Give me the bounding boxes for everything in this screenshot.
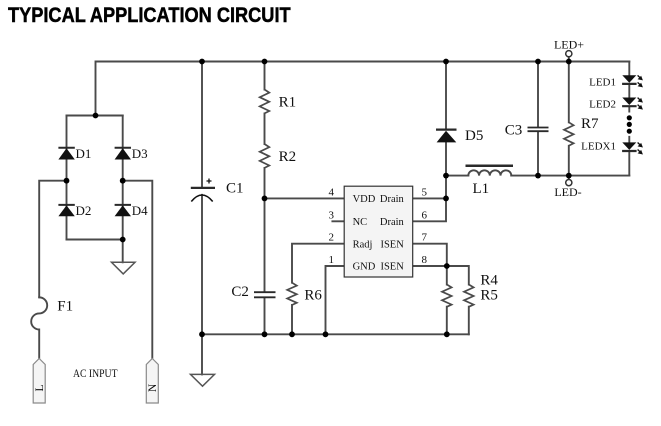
svg-text:C2: C2 [231, 284, 249, 300]
svg-text:R4: R4 [480, 273, 498, 289]
svg-text:VDD: VDD [353, 194, 376, 205]
svg-text:N: N [147, 383, 159, 392]
svg-text:D1: D1 [76, 146, 92, 161]
svg-text:NC: NC [353, 217, 368, 228]
svg-text:5: 5 [422, 187, 428, 199]
svg-text:R2: R2 [279, 149, 297, 165]
svg-text:AC INPUT: AC INPUT [73, 368, 118, 380]
svg-text:R1: R1 [279, 95, 297, 111]
svg-text:Radj: Radj [353, 239, 373, 250]
svg-text:LED-: LED- [554, 185, 581, 199]
svg-text:GND: GND [353, 262, 376, 273]
svg-text:R5: R5 [480, 287, 498, 303]
svg-text:R6: R6 [304, 287, 322, 303]
svg-text:D5: D5 [465, 128, 483, 144]
svg-text:1: 1 [329, 254, 335, 266]
svg-text:D2: D2 [76, 203, 92, 218]
svg-text:6: 6 [422, 209, 428, 221]
svg-text:3: 3 [329, 209, 335, 221]
svg-text:8: 8 [422, 254, 428, 266]
svg-text:Drain: Drain [380, 194, 405, 205]
svg-text:LED+: LED+ [554, 38, 584, 52]
svg-text:ISEN: ISEN [380, 262, 404, 273]
svg-text:D3: D3 [132, 146, 148, 161]
svg-text:L: L [34, 384, 46, 391]
svg-text:LEDX1: LEDX1 [581, 141, 616, 153]
svg-text:LED2: LED2 [589, 99, 616, 111]
svg-text:ISEN: ISEN [380, 239, 404, 250]
svg-text:Drain: Drain [380, 217, 405, 228]
svg-text:4: 4 [329, 187, 335, 199]
svg-text:7: 7 [422, 232, 428, 244]
svg-text:C3: C3 [505, 122, 523, 138]
svg-text:R7: R7 [581, 116, 599, 132]
svg-text:C1: C1 [226, 181, 244, 197]
svg-text:2: 2 [329, 232, 335, 244]
svg-text:F1: F1 [57, 299, 73, 315]
svg-text:LED1: LED1 [589, 77, 616, 89]
svg-text:D4: D4 [132, 203, 148, 218]
svg-text:L1: L1 [473, 181, 490, 197]
